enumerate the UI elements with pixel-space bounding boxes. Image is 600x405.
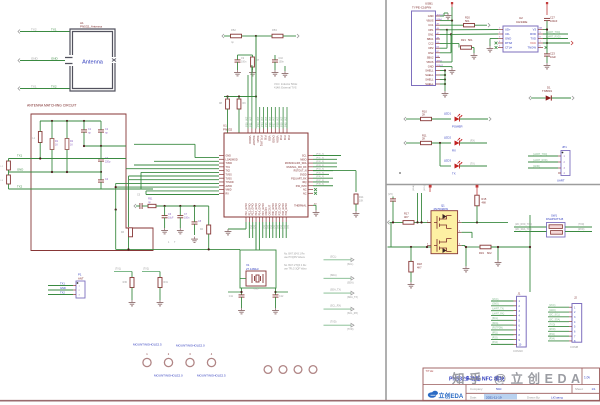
svg-text:LOADMOD: LOADMOD	[226, 158, 238, 161]
IC U2 body	[503, 26, 538, 52]
wire DP1	[440, 29, 447, 31]
svg-text:(SDA_TX): (SDA_TX)	[330, 289, 341, 292]
wire to U1 TX2	[101, 188, 141, 190]
resistor R30	[114, 271, 132, 273]
net port right	[572, 96, 574, 100]
svg-text:PN532_Antenna: PN532_Antenna	[80, 25, 102, 29]
svg-text:1K: 1K	[70, 143, 73, 146]
svg-text:GND: GND	[505, 37, 511, 41]
svg-text:P37_INT: P37_INT	[272, 116, 276, 127]
svg-text:1K: 1K	[55, 143, 58, 146]
wire to gnd	[497, 247, 499, 260]
svg-text:J2: J2	[574, 296, 577, 300]
svg-text:TX: TX	[452, 172, 456, 176]
capacitor C27	[544, 17, 550, 19]
svg-text:TVSS: TVSS	[226, 174, 233, 177]
connector USB1 body	[412, 11, 436, 86]
svg-text:(SDA): (SDA)	[347, 281, 354, 284]
svg-text:C11: C11	[229, 295, 234, 298]
resistor R10	[406, 118, 421, 120]
capacitor C4	[98, 179, 104, 181]
svg-text:GND: GND	[428, 65, 434, 69]
logo cloud	[428, 391, 438, 398]
svg-text:10uF: 10uF	[550, 55, 556, 59]
svg-text:VCC: Inductor 56nH: VCC: Inductor 56nH	[274, 82, 297, 86]
svg-text:(P38_X): (P38_X)	[316, 184, 324, 186]
svg-text:(TXD): (TXD)	[347, 328, 354, 331]
net port bracket	[388, 220, 390, 224]
LED LED2	[455, 141, 460, 146]
svg-text:SHELL: SHELL	[425, 73, 434, 77]
wire Q1 right row1	[462, 221, 508, 223]
ground	[546, 63, 548, 66]
mounting hole H1	[143, 358, 151, 366]
mounting hole H3	[186, 358, 194, 366]
svg-text:P35: P35	[264, 136, 268, 141]
wire bottom bus	[116, 248, 240, 250]
svg-text:(SCL): (SCL)	[424, 185, 426, 191]
svg-text:Drawn By:: Drawn By:	[527, 396, 541, 400]
ground	[131, 300, 133, 303]
svg-text:SCL: SCL	[302, 155, 307, 158]
title block row divider 2	[466, 392, 600, 394]
svg-text:(x1): (x1)	[283, 225, 285, 229]
J2 wires	[548, 306, 569, 308]
left resistor L2	[7, 161, 11, 170]
svg-text:J1: J1	[518, 292, 521, 296]
junction	[255, 35, 257, 37]
wire to U1 TX1	[126, 168, 219, 170]
crystal X1 body	[246, 271, 266, 286]
svg-text:TX2: TX2	[51, 85, 57, 89]
svg-text:2021-11-19: 2021-11-19	[486, 395, 502, 399]
net port GND row2	[18, 59, 20, 63]
SW1 wires left	[514, 226, 547, 228]
svg-text:100n: 100n	[279, 60, 285, 63]
resistor R8 vertical	[226, 99, 230, 109]
Q1 diode top	[443, 214, 447, 219]
svg-text:(x1): (x1)	[266, 225, 268, 229]
LED LED1	[455, 117, 460, 122]
net port TX1 row3	[18, 87, 20, 91]
svg-text:Date:: Date:	[470, 396, 477, 400]
svg-text:(SDA): (SDA)	[412, 185, 415, 191]
wire DP2	[440, 47, 447, 49]
svg-text:TX2: TX2	[17, 185, 23, 189]
svg-text:TXD: TXD	[530, 37, 536, 41]
svg-text:(UART_TXD): (UART_TXD)	[533, 153, 547, 156]
svg-text:10K: 10K	[359, 199, 364, 202]
svg-text:MOUNTINGHOLE2.5: MOUNTINGHOLE2.5	[133, 343, 162, 347]
ferrite bead FB1	[148, 204, 156, 207]
junction	[51, 120, 53, 122]
svg-text:MISO: MISO	[300, 158, 306, 161]
svg-text:(UART_RXD): (UART_RXD)	[546, 36, 561, 39]
svg-text:(SDA): (SDA)	[492, 322, 498, 325]
svg-text:P39_INT: P39_INT	[280, 116, 284, 127]
svg-text:RX: RX	[452, 149, 456, 153]
junction	[164, 205, 166, 207]
svg-text:(RXD): (RXD)	[549, 329, 556, 331]
svg-text:(TXD): (TXD)	[578, 224, 584, 226]
svg-text:LiGuang: LiGuang	[551, 396, 563, 400]
svg-text:1/1: 1/1	[592, 387, 596, 391]
svg-text:(RSTPDN): (RSTPDN)	[492, 328, 503, 330]
svg-text:(TX2): (TX2)	[143, 268, 149, 271]
capacitor C5 horizontal	[139, 203, 141, 209]
svg-text:DN1: DN1	[428, 32, 434, 36]
wire U2 GND	[490, 38, 498, 40]
mounting hole H2	[164, 358, 172, 366]
svg-text:SHELL: SHELL	[425, 82, 434, 86]
svg-text:VCC: VCC	[530, 41, 536, 45]
resistor R7	[251, 57, 255, 67]
svg-text:VBUS: VBUS	[426, 60, 433, 64]
ground	[159, 300, 161, 303]
wire UD- from USB	[451, 33, 498, 35]
mounting hole H5	[264, 366, 272, 374]
wire top long	[255, 36, 257, 129]
svg-text:P35_INT: P35_INT	[264, 116, 268, 127]
svg-text:5K1: 5K1	[465, 19, 470, 23]
wire UD+ from USB	[447, 29, 498, 31]
SW1 wires right	[565, 226, 592, 228]
svg-text:(UART_TX): (UART_TX)	[492, 307, 504, 310]
wire VCC	[543, 42, 570, 44]
svg-text:(VCC): (VCC)	[492, 299, 499, 301]
svg-text:LED1: LED1	[444, 112, 451, 116]
wire to U1 TVDD	[134, 164, 219, 166]
svg-text:4148: External TVS: 4148: External TVS	[274, 86, 297, 90]
svg-text:TNOW: TNOW	[527, 46, 536, 50]
svg-text:(VCC): (VCC)	[549, 305, 556, 307]
svg-text:P40_INT: P40_INT	[283, 116, 287, 127]
svg-text:TX1: TX1	[31, 85, 37, 89]
svg-text:ANT: ANT	[78, 277, 84, 281]
svg-text:TX2: TX2	[60, 291, 65, 295]
resistor R1	[50, 139, 54, 150]
svg-text:R21: R21	[461, 38, 466, 42]
svg-text:IRQ: IRQ	[302, 181, 306, 184]
svg-text:SVDD: SVDD	[300, 174, 307, 177]
capacitor C23	[546, 43, 548, 54]
left resistor L3	[7, 175, 11, 184]
svg-text:use HVQFN Videos: use HVQFN Videos	[284, 256, 306, 259]
wire DN2	[440, 52, 451, 54]
svg-text:DN2: DN2	[428, 51, 434, 55]
svg-text:POWER: POWER	[452, 125, 463, 129]
transistor Q1 body	[431, 211, 458, 254]
capacitor C8	[192, 221, 198, 223]
terminal VCC right	[476, 185, 479, 188]
svg-text:(P36_X): (P36_X)	[316, 176, 324, 178]
wire RXD	[543, 33, 568, 35]
svg-text:GND: GND	[17, 168, 23, 172]
svg-text:(RX): (RX)	[470, 140, 475, 143]
svg-text:VMID: VMID	[226, 189, 232, 192]
svg-text:(GND): (GND)	[492, 304, 499, 306]
svg-text:P31_INT: P31_INT	[248, 116, 252, 127]
svg-text:P33: P33	[283, 136, 287, 141]
terminal VCC top	[546, 2, 548, 4]
svg-text:COM10: COM10	[513, 349, 523, 353]
svg-text:P32_INT0: P32_INT0	[296, 185, 307, 188]
svg-text:(x1): (x1)	[253, 225, 255, 229]
svg-text:R18: R18	[417, 262, 422, 266]
svg-text:NSS/SCL_MO_RX: NSS/SCL_MO_RX	[286, 166, 306, 169]
svg-text:No. BAT 1/TQF 4 Re:: No. BAT 1/TQF 4 Re:	[284, 264, 307, 267]
net port TX2 (top-left row1)	[18, 30, 20, 34]
svg-text:27.12MHz: 27.12MHz	[246, 267, 259, 271]
ground	[252, 70, 254, 73]
svg-text:(x1): (x1)	[263, 225, 265, 229]
svg-text:TX1: TX1	[51, 28, 57, 32]
date highlight	[484, 394, 517, 400]
x-mark TNOW	[545, 46, 548, 49]
svg-text:R15: R15	[482, 197, 487, 201]
ground	[227, 229, 229, 232]
svg-text:2K: 2K	[422, 137, 425, 141]
capacitor C9	[235, 59, 241, 61]
svg-text:CC1: CC1	[428, 23, 434, 27]
ground	[444, 91, 446, 94]
svg-text:50Ω: 50Ω	[496, 387, 502, 391]
connector J2 body	[572, 304, 582, 343]
svg-text:(SDA): (SDA)	[330, 274, 337, 277]
svg-text:(P30_X): (P30_X)	[316, 154, 324, 156]
net port L4 input	[134, 204, 136, 208]
svg-text:(TX): (TX)	[470, 163, 475, 166]
svg-text:(SCL): (SCL)	[492, 318, 498, 320]
resistor R19 horizontal	[480, 245, 491, 249]
svg-text:DP1: DP1	[428, 28, 434, 32]
svg-text:46K: 46K	[482, 201, 487, 205]
U1 bottom pins	[246, 217, 286, 222]
U1 right wires	[313, 155, 341, 157]
svg-text:(UART_TXD): (UART_TXD)	[546, 31, 560, 34]
svg-text:GND: GND	[51, 57, 59, 61]
wire CC1 + resistor R20	[440, 24, 464, 26]
ground	[179, 228, 181, 231]
svg-text:(VX): (VX)	[388, 193, 393, 196]
mounting hole H4	[207, 358, 215, 366]
ground	[194, 237, 196, 240]
antenna A1 body	[65, 29, 115, 91]
U2 pin stubs	[498, 30, 543, 48]
capacitor C7	[177, 215, 183, 217]
svg-text:(SCL): (SCL)	[330, 255, 336, 258]
junction	[115, 209, 117, 211]
USB1 pin names	[425, 14, 434, 86]
sheet section divider horizontal	[386, 184, 600, 186]
svg-text:(UART_RX): (UART_RX)	[492, 312, 504, 315]
svg-text:SBU2: SBU2	[427, 55, 434, 59]
LED LED3	[455, 164, 460, 169]
connector J1 body	[517, 296, 527, 347]
ground	[237, 70, 239, 73]
capacitor C2	[98, 129, 104, 131]
svg-text:(P31_X): (P31_X)	[316, 157, 324, 159]
ground top-centre	[284, 66, 286, 71]
capacitor C11	[241, 288, 243, 295]
wire to U1 pin GND	[134, 143, 195, 145]
svg-text:CTL#: CTL#	[505, 46, 512, 50]
op-amp U1 body	[224, 133, 308, 217]
switch SW1 body	[547, 223, 566, 238]
svg-text:MOSI/SCL/RX_SDA: MOSI/SCL/RX_SDA	[285, 162, 307, 165]
sheet section divider vertical	[385, 0, 387, 401]
sheet bottom border	[0, 400, 600, 402]
resistor R14 right of U1	[313, 170, 356, 172]
svg-text:(SCL_RX): (SCL_RX)	[330, 305, 341, 308]
ground	[451, 68, 453, 71]
svg-text:TX2: TX2	[31, 28, 37, 32]
wire VBUS	[440, 20, 452, 22]
resistor R18 vertical	[409, 261, 413, 272]
svg-text:SBU1: SBU1	[427, 37, 434, 41]
junction	[83, 120, 85, 122]
svg-text:(GND): (GND)	[549, 310, 556, 312]
svg-text:R30: R30	[123, 281, 128, 284]
JP1 wires	[528, 155, 558, 157]
resistor R11	[406, 142, 421, 144]
Q1 pin numbers	[427, 220, 461, 245]
title block col divider version	[581, 368, 583, 385]
svg-text:(TX1): (TX1)	[115, 268, 121, 271]
ground	[447, 13, 449, 16]
wire mid link	[84, 145, 126, 147]
capacitor C12	[275, 288, 277, 295]
svg-text:1.0v: 1.0v	[584, 376, 590, 380]
svg-text:MOUNTINGHOLE2.0: MOUNTINGHOLE2.0	[176, 344, 205, 348]
svg-text:PN532: PN532	[223, 128, 233, 132]
capacitor C3	[98, 158, 104, 160]
svg-text:DVDD: DVDD	[271, 136, 275, 143]
wire TXD	[543, 38, 568, 40]
diode D1	[531, 97, 546, 99]
crystal block outline	[240, 250, 276, 288]
net port LED2	[404, 141, 406, 145]
svg-text:(x1): (x1)	[249, 225, 251, 229]
wires IC to crystal	[255, 222, 257, 250]
svg-text:R20: R20	[465, 16, 470, 20]
title block row divider 1	[423, 384, 600, 386]
wire to U1 TVSS2	[129, 179, 220, 181]
svg-text:(RXD): (RXD)	[578, 229, 585, 231]
ground	[489, 46, 491, 49]
net port LED1 right	[489, 117, 491, 121]
svg-text:(x1): (x1)	[276, 225, 278, 229]
svg-text:No. BAT 1043 1 Re:: No. BAT 1043 1 Re:	[284, 253, 306, 256]
resistor R9 vertical	[237, 99, 241, 109]
svg-text:(GND): (GND)	[533, 165, 540, 168]
svg-text:SIGOUT: SIGOUT	[252, 136, 256, 146]
svg-text:ANTENNA MATCHING CIRCUIT: ANTENNA MATCHING CIRCUIT	[27, 104, 76, 108]
resistor R15	[475, 195, 479, 206]
svg-text:TITLE:: TITLE:	[426, 369, 435, 373]
capacitor C10	[272, 59, 278, 61]
svg-text:P36_INT: P36_INT	[268, 116, 272, 127]
ground	[410, 282, 412, 285]
junction	[100, 171, 102, 173]
ground	[274, 70, 276, 73]
svg-text:NC: NC	[303, 189, 307, 192]
svg-text:(I2C_SDA_TXD): (I2C_SDA_TXD)	[515, 228, 532, 231]
svg-text:NC: NC	[303, 192, 307, 195]
svg-text:知乎 @立创EDA: 知乎 @立创EDA	[451, 371, 580, 386]
U1 right pins	[308, 156, 313, 194]
Q1 pin stubs	[427, 222, 462, 245]
svg-text:(TXD): (TXD)	[549, 324, 555, 326]
svg-text:V3: V3	[533, 28, 537, 32]
Q1 mosfet top	[434, 216, 452, 229]
svg-text:(P35_X): (P35_X)	[316, 172, 324, 174]
wire USB GND pin1	[440, 15, 444, 17]
wire to U1 VMID	[116, 186, 219, 188]
svg-text:R17: R17	[404, 212, 409, 216]
svg-text:VDDIO: VDDIO	[248, 136, 252, 144]
J1 wires	[491, 300, 514, 302]
wire SDA SCL verticals	[417, 193, 419, 222]
svg-text:LED2: LED2	[444, 136, 451, 140]
ground	[497, 260, 499, 263]
svg-text:GND: GND	[254, 289, 259, 291]
svg-text:(UART_RXD): (UART_RXD)	[533, 159, 548, 162]
wire SHELL bus	[440, 71, 445, 85]
wire to U1 AVDD	[116, 182, 219, 184]
resistor R5 horizontal	[231, 34, 242, 38]
svg-text:P34: P34	[279, 136, 283, 141]
wire DN1	[440, 33, 451, 35]
wire row1	[390, 221, 432, 223]
svg-text:LED3: LED3	[444, 159, 451, 163]
mounting hole H6	[279, 366, 287, 374]
svg-text:(SCL): (SCL)	[347, 263, 353, 266]
resistor R6 horizontal	[272, 34, 283, 38]
svg-text:TXVDD: TXVDD	[226, 181, 234, 184]
svg-text:Antenna: Antenna	[82, 59, 104, 65]
svg-text:(P32): (P32)	[492, 337, 498, 339]
svg-text:VBUS: VBUS	[426, 19, 433, 23]
vertical wire with resistor R3	[128, 180, 130, 227]
svg-text:(x1): (x1)	[286, 225, 288, 229]
net port LED1	[404, 117, 406, 121]
svg-text:(x1): (x1)	[279, 225, 281, 229]
svg-text:100n: 100n	[184, 216, 190, 219]
net port right	[297, 34, 299, 38]
wire to U1 RX	[146, 190, 219, 192]
wire GND to antenna	[20, 60, 65, 62]
svg-text:Sheet:: Sheet:	[575, 387, 584, 391]
U1 right NC x-marks	[314, 188, 317, 191]
svg-text:P34_GPIO: P34_GPIO	[285, 203, 288, 215]
capacitor C1	[81, 129, 87, 131]
svg-text:(I2C_SDA): (I2C_SDA)	[549, 318, 560, 321]
svg-text:R31: R31	[164, 281, 169, 284]
wire V3	[543, 29, 547, 31]
wire USB GND pin12	[440, 66, 452, 68]
vertical link left	[390, 222, 392, 247]
svg-text:VDDA: VDDA	[275, 136, 279, 143]
U2 pin numbers	[499, 28, 543, 48]
svg-text:JP1: JP1	[562, 145, 567, 149]
svg-text:(P33_X): (P33_X)	[316, 165, 324, 167]
mounting hole H7	[294, 366, 302, 374]
svg-text:GND: GND	[226, 155, 232, 158]
resistor R31	[142, 271, 160, 273]
mounting hole H8	[309, 366, 317, 374]
svg-text:(P34): (P34)	[549, 339, 555, 341]
